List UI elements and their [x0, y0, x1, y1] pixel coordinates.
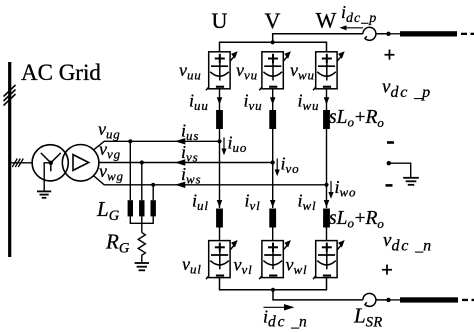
transformer delta symbol	[73, 155, 89, 171]
current arrow i_dc_p	[342, 27, 363, 29]
current arrow i_uo	[223, 137, 225, 152]
lower arm arrow U	[217, 200, 223, 208]
transformer T1 secondary circle	[62, 145, 99, 182]
wire U leg mid	[219, 129, 221, 208]
inductor LG u	[128, 200, 133, 216]
wire W leg mid	[326, 129, 328, 208]
current arrow i_wo	[330, 181, 332, 196]
upper submodule U	[206, 51, 238, 90]
inductor loop top	[363, 27, 376, 40]
svg-text:V: V	[265, 8, 281, 33]
wire phase v from transformer	[99, 162, 273, 164]
arm inductor V upper	[269, 110, 276, 129]
current arrow i_vs	[175, 159, 186, 165]
wire bus to transformer	[10, 162, 33, 164]
wire W upper arm	[326, 89, 328, 110]
lower submodule U	[206, 240, 238, 279]
lower arm arrow W	[324, 200, 330, 208]
transformer wye symbol	[41, 153, 61, 171]
arm inductor V lower	[269, 209, 276, 228]
svg-text:+: +	[381, 258, 393, 282]
inductor loop bottom	[363, 293, 376, 306]
lower arm arrow V	[270, 200, 276, 208]
minus dc_p	[387, 141, 394, 144]
wire W to lower sm	[326, 228, 328, 241]
wire v to LG	[141, 163, 143, 201]
bottom dc bus	[220, 278, 389, 300]
neutral ground wire	[44, 163, 51, 191]
top dc bus	[220, 34, 389, 52]
current arrow i_ws	[175, 182, 186, 188]
wye neutral node	[49, 161, 53, 165]
svg-text:AC Grid: AC Grid	[21, 60, 101, 85]
minus dc_n	[386, 184, 393, 187]
current arrow i_vo	[276, 159, 278, 174]
transformer neutral ground	[37, 191, 51, 197]
current arrow i_us	[175, 138, 186, 144]
midpoint ground	[403, 178, 419, 185]
wire phase w from transformer	[94, 176, 327, 185]
arm inductor W lower	[323, 209, 330, 228]
wire to dc cable n	[389, 299, 401, 301]
bus slash marks	[4, 85, 16, 106]
node w-LG	[151, 183, 155, 187]
node U ac	[217, 139, 221, 143]
dc cable p dashes	[461, 33, 467, 35]
current arrow i_dc_n	[264, 306, 290, 308]
svg-text:+: +	[384, 43, 396, 67]
wire phase u from transformer	[94, 141, 220, 150]
inductor LG w	[151, 200, 156, 216]
wire LG join	[130, 216, 153, 232]
lower submodule V	[259, 240, 291, 279]
dc cable n dashes	[462, 299, 468, 301]
node V ac	[271, 160, 275, 164]
svg-text:W: W	[316, 8, 337, 33]
wire w to LG	[152, 185, 154, 200]
lower submodule W	[313, 240, 345, 279]
arm inductor W upper	[323, 110, 330, 129]
AC grid bus	[8, 62, 11, 257]
node dc_p	[386, 32, 390, 36]
wire V upper arm	[272, 89, 274, 110]
arm inductor U upper	[216, 110, 223, 129]
svg-text:sLo+Ro: sLo+Ro	[329, 208, 385, 231]
upper submodule V	[259, 51, 291, 90]
wire V to lower sm	[272, 228, 274, 241]
midpoint ground wire	[389, 163, 411, 177]
node v-LG	[140, 160, 144, 164]
RG ground	[135, 263, 149, 270]
node V top	[271, 40, 275, 44]
node u-LG	[128, 139, 132, 143]
dc cable p	[400, 31, 457, 36]
midpoint node	[387, 161, 391, 165]
svg-text:U: U	[212, 8, 228, 33]
wire u to LG	[129, 141, 131, 200]
transformer T1 primary circle	[32, 145, 68, 181]
svg-text:sLo+Ro: sLo+Ro	[329, 107, 385, 130]
dc cable n	[400, 297, 458, 302]
wire V leg mid	[272, 129, 274, 208]
wire to dc cable	[389, 33, 401, 35]
node V bottom	[271, 288, 275, 292]
arm inductor U lower	[216, 209, 223, 228]
wire slash marks	[12, 159, 23, 168]
wire U upper arm	[219, 89, 221, 110]
inductor LG v	[139, 200, 144, 216]
wire U to lower sm	[219, 228, 221, 241]
upper submodule W	[313, 51, 345, 90]
node W ac	[324, 183, 328, 187]
node dc_n	[386, 298, 390, 302]
resistor RG	[138, 233, 145, 263]
